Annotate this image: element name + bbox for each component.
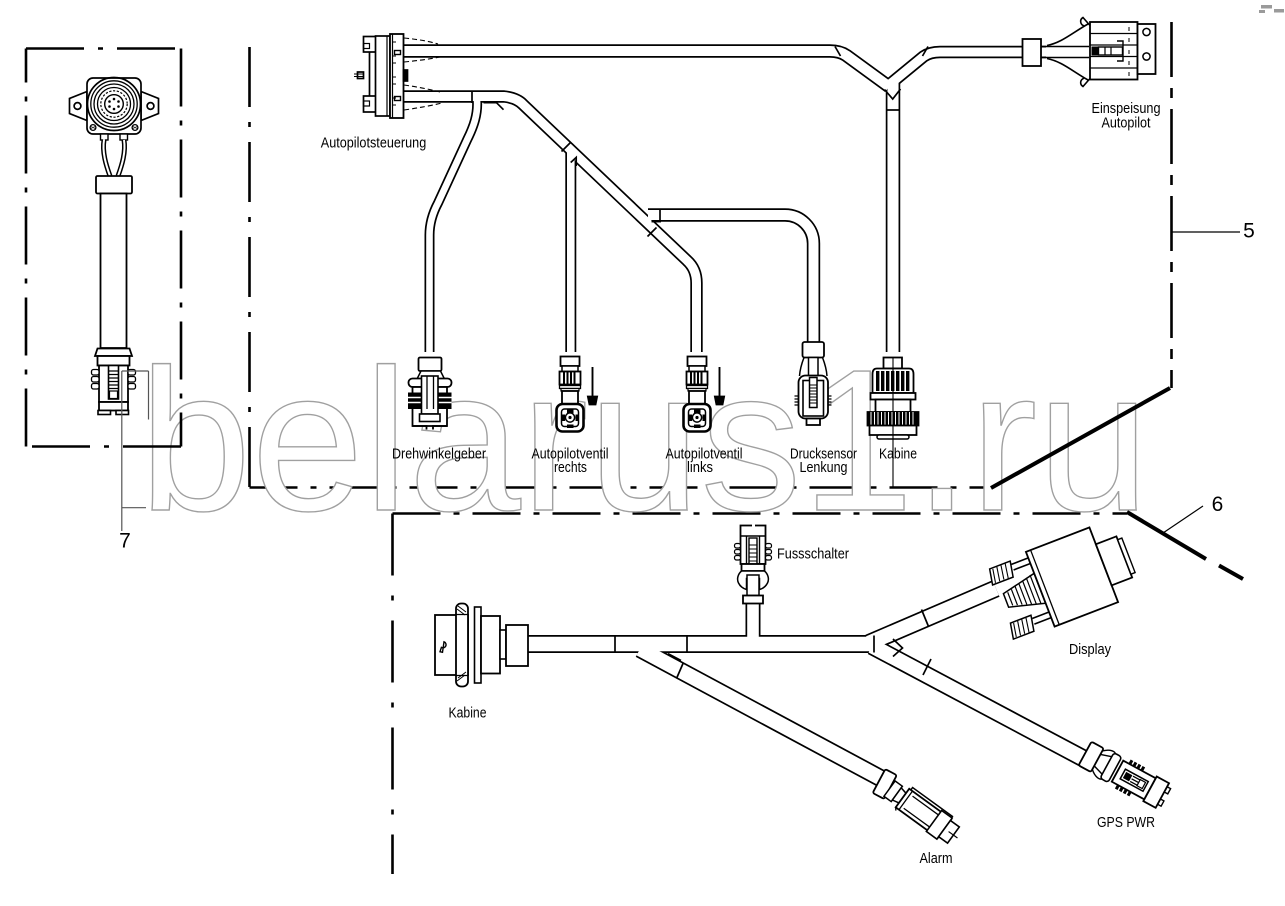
svg-text:7: 7 xyxy=(119,530,131,553)
leader lines item 7 xyxy=(122,371,149,531)
seam gps branch xyxy=(923,659,931,675)
svg-text:Fussschalter: Fussschalter xyxy=(777,546,849,563)
seam on diagonal near rechts xyxy=(562,143,571,152)
connector Fussschalter xyxy=(735,526,772,604)
thumbscrew upper xyxy=(987,561,1016,585)
notch fork Drehwinkelgeber/diagonal xyxy=(484,103,504,110)
seam bottom main end x874 xyxy=(873,636,875,653)
svg-text:Kabine: Kabine xyxy=(879,446,917,463)
connector Display xyxy=(986,518,1143,642)
boundary line A (section 5 bottom) xyxy=(250,486,992,489)
svg-text:belarus1.ru: belarus1.ru xyxy=(139,327,1150,553)
screw links xyxy=(719,367,721,397)
svg-text:Drehwinkelgeber: Drehwinkelgeber xyxy=(392,446,486,463)
wire diagonal to Autopilotventil links: black outline xyxy=(404,97,697,353)
sleeve xyxy=(96,176,132,194)
bottom branch to Display: black outline xyxy=(869,589,996,644)
wire Y down to Kabine: black outline xyxy=(886,78,901,352)
bottom harness main: black outline xyxy=(528,635,874,653)
leader line 6 xyxy=(1163,506,1203,533)
Alarm branch white core xyxy=(640,649,884,780)
bottom branch to Alarm: black outline xyxy=(640,649,884,780)
svg-text:Display: Display xyxy=(1069,641,1111,658)
notch Y top harness xyxy=(885,89,901,99)
connector Autopilotventil links xyxy=(684,357,725,432)
section 5 corner diagonal xyxy=(991,388,1170,488)
seam top cable at bend xyxy=(835,47,841,57)
wire diagonal links white core xyxy=(404,97,697,354)
seam einspeisung branch at bend xyxy=(923,47,929,57)
bottom band and feet xyxy=(99,402,128,411)
Fussschalter stem: black outline xyxy=(746,601,761,640)
seam on lower branch x472 xyxy=(471,91,473,104)
seam on diagonal lower xyxy=(648,228,657,237)
wire drop to Autopilotventil rechts: black outline xyxy=(565,152,576,352)
connector Autopilotsteuerung xyxy=(354,34,442,118)
tube xyxy=(101,194,127,349)
Display branch white core xyxy=(869,589,996,644)
screw rechts xyxy=(592,367,594,397)
connector Kabine bottom xyxy=(435,604,528,687)
connector Kabine top xyxy=(868,357,919,488)
wire branch to Drucksensor: black outline xyxy=(648,215,814,342)
svg-text:Alarm: Alarm xyxy=(920,850,953,867)
boundary vertical x249 xyxy=(248,33,251,487)
bottom connector of sensor cable xyxy=(95,349,132,357)
seam bottom main x687 xyxy=(686,636,688,653)
section 6 detached dash xyxy=(1219,566,1243,580)
sensor wires xyxy=(101,134,109,140)
svg-text:Autopilotsteuerung: Autopilotsteuerung xyxy=(321,135,427,152)
svg-text:Autopilot: Autopilot xyxy=(1102,115,1152,132)
inner slot xyxy=(422,376,439,414)
boundary vertical right x1172 xyxy=(1170,22,1173,388)
boundary vertical x392 xyxy=(391,514,394,875)
leader line 5 xyxy=(1172,231,1240,233)
svg-text:6: 6 xyxy=(1212,493,1224,516)
GPS branch white core xyxy=(872,646,1092,763)
wire top main white core xyxy=(404,51,889,87)
connector Alarm xyxy=(866,769,972,851)
connector Einspeisung Autopilot xyxy=(1023,18,1156,87)
svg-text:links: links xyxy=(687,459,713,476)
middle terminal xyxy=(1092,47,1099,56)
wire Drucksensor branch white core xyxy=(648,215,814,343)
thumbscrew lower xyxy=(1008,615,1037,639)
notch bottom Y xyxy=(893,639,903,657)
connector Drehwinkelgeber xyxy=(408,358,452,430)
boundary box item 7 xyxy=(26,47,181,50)
centre ladder slot xyxy=(109,366,119,400)
connector Autopilotventil rechts xyxy=(557,357,598,432)
svg-text:Kabine: Kabine xyxy=(449,705,487,722)
svg-text:5: 5 xyxy=(1243,220,1255,243)
boot xyxy=(1001,573,1046,616)
wire to Drehwinkelgeber: black outline xyxy=(430,100,478,352)
svg-text:GPS PWR: GPS PWR xyxy=(1097,814,1155,831)
seam display branch xyxy=(922,610,929,627)
connector GPS PWR xyxy=(1077,739,1174,812)
side fins xyxy=(92,370,136,390)
svg-text:Lenkung: Lenkung xyxy=(800,459,848,476)
section 6 corner diagonal xyxy=(1127,512,1206,559)
wire rechts white core xyxy=(567,150,575,353)
connector Drucksensor Lenkung xyxy=(795,342,832,425)
notch rechts drop xyxy=(571,157,577,166)
black seal rings xyxy=(408,393,452,410)
cable seams and notches xyxy=(472,47,931,679)
bottom branch to GPS PWR: black outline xyxy=(872,646,1092,763)
notch Drucksensor branch / diagonal xyxy=(652,221,662,223)
body xyxy=(1026,527,1118,626)
wire Drehwinkelgeber white core xyxy=(430,100,478,353)
feet xyxy=(413,426,448,430)
label 7 with leader xyxy=(119,371,148,553)
seam bottom main x615 xyxy=(614,636,616,653)
wire Einspeisung branch: black outline xyxy=(887,52,1046,87)
dashed wire fans xyxy=(404,38,438,44)
wire Einspeisung branch white core xyxy=(887,52,1046,87)
boundary line B (section 6 top) xyxy=(393,512,1128,515)
seam below Y xyxy=(886,109,900,111)
tiny gray marks top right xyxy=(1259,5,1284,13)
sensor head item 7 xyxy=(70,78,159,415)
notch alarm fork xyxy=(668,654,681,661)
svg-text:rechts: rechts xyxy=(554,459,587,476)
wire top main to Einspeisung: black outline xyxy=(404,51,889,87)
wire Y down white core xyxy=(887,80,898,353)
seam alarm branch xyxy=(677,664,684,679)
bottom main white core xyxy=(528,637,874,652)
face plug xyxy=(1096,536,1132,585)
Fussschalter stem white core xyxy=(747,601,759,640)
seam on Drucksensor branch x660 xyxy=(659,209,661,222)
